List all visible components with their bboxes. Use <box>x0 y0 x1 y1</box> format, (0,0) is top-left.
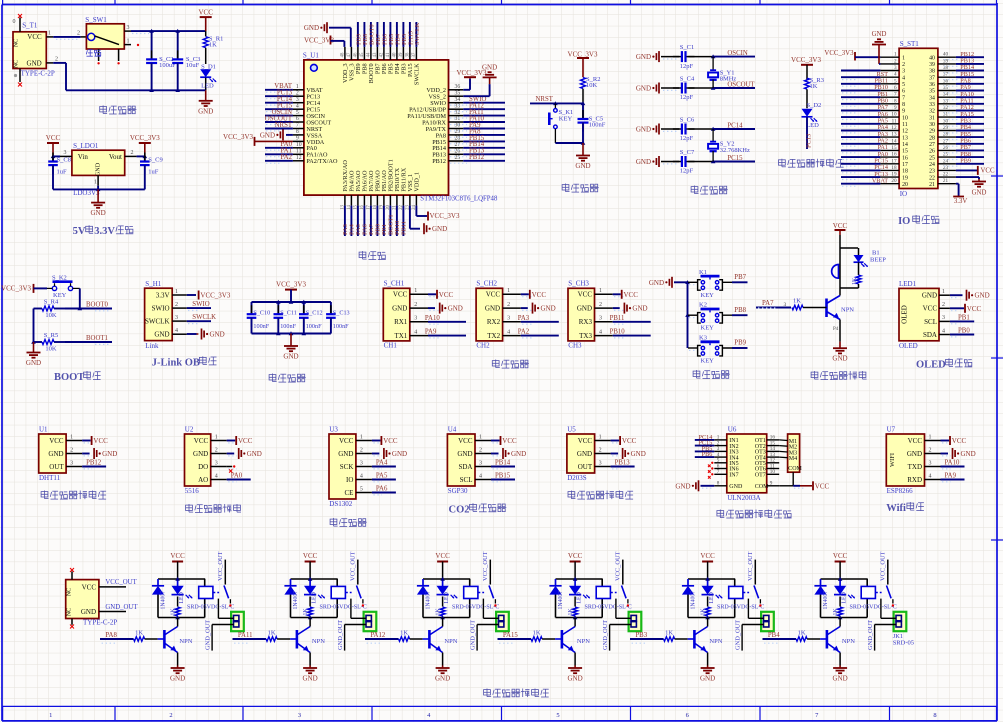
node GND_OUT relay PA12 <box>470 620 499 651</box>
svg-text:8: 8 <box>894 98 897 104</box>
node VCC_OUT net connector <box>99 579 138 587</box>
node 晶振电路 title <box>691 186 728 195</box>
wire mcu left stubs <box>265 83 293 163</box>
svg-text:S_C10: S_C10 <box>253 310 270 317</box>
svg-text:PA10: PA10 <box>425 315 440 322</box>
svg-text:VCC: VCC <box>815 482 830 490</box>
svg-text:S_C13: S_C13 <box>333 310 350 317</box>
ground U7 <box>941 448 976 459</box>
svg-text:PB12: PB12 <box>469 154 485 161</box>
wire relay frame PB3 <box>688 577 735 619</box>
pin ULN IN5-IN7 open <box>708 462 714 479</box>
svg-text:BOOT1: BOOT1 <box>86 335 108 342</box>
svg-text:8MHz: 8MHz <box>720 76 737 83</box>
power VCC U2 <box>227 436 253 445</box>
node PB15 net U4 <box>491 473 515 480</box>
svg-text:5: 5 <box>894 78 897 84</box>
svg-text:PC13: PC13 <box>806 134 813 148</box>
svg-text:GND: GND <box>832 355 847 363</box>
svg-text:GND: GND <box>833 675 848 683</box>
ground mcu top VSS_3 <box>304 22 351 47</box>
svg-text:VCC: VCC <box>198 8 213 16</box>
svg-text:LED: LED <box>312 592 318 603</box>
svg-text:40: 40 <box>393 52 398 57</box>
svg-text:DS1302: DS1302 <box>329 500 352 508</box>
svg-text:VCC: VCC <box>383 437 398 445</box>
svg-text:GND: GND <box>193 450 208 458</box>
svg-text:S_T1: S_T1 <box>22 21 38 29</box>
switch S_SW1 <box>85 16 139 65</box>
svg-text:VCC_OUT: VCC_OUT <box>105 579 137 586</box>
svg-text:PB12: PB12 <box>86 460 102 467</box>
svg-text:4: 4 <box>507 329 510 335</box>
relay switch PA12 <box>489 586 497 607</box>
LED relay PA11 <box>304 586 325 604</box>
svg-text:PB3: PB3 <box>635 632 647 639</box>
svg-text:SWIO: SWIO <box>152 305 170 313</box>
svg-text:GND: GND <box>247 450 262 458</box>
svg-text:2: 2 <box>414 302 417 308</box>
svg-text:GND: GND <box>577 304 592 312</box>
svg-text:RX1: RX1 <box>394 318 408 326</box>
svg-text:GND: GND <box>27 59 42 67</box>
svg-text:J-Link OB: J-Link OB <box>152 357 200 368</box>
wire relay frame PB4 <box>821 577 868 619</box>
svg-text:OUT: OUT <box>578 463 593 471</box>
svg-text:9: 9 <box>902 109 905 115</box>
svg-text:44: 44 <box>367 52 372 57</box>
header S_H1 J-Link <box>145 280 187 350</box>
svg-text:S_U1: S_U1 <box>303 52 319 60</box>
relay switch PB3 <box>754 586 762 607</box>
wire header right nets <box>944 51 984 166</box>
svg-text:3: 3 <box>175 315 178 321</box>
svg-text:GND: GND <box>577 450 592 458</box>
svg-text:PA10: PA10 <box>945 460 960 467</box>
svg-text:10K: 10K <box>45 312 57 319</box>
svg-text:18: 18 <box>891 165 897 171</box>
svg-text:Link: Link <box>145 342 159 350</box>
header S_ST1 body <box>899 40 938 198</box>
svg-text:ESP8266: ESP8266 <box>887 487 914 495</box>
svg-text:VCC_3V3: VCC_3V3 <box>276 280 306 288</box>
node GND_OUT net connector <box>99 604 138 612</box>
svg-text:K1: K1 <box>699 269 707 276</box>
svg-text:3: 3 <box>929 460 932 466</box>
svg-text:6: 6 <box>894 85 897 91</box>
svg-text:0: 0 <box>13 19 16 25</box>
svg-text:GND: GND <box>95 162 102 176</box>
svg-text:45: 45 <box>360 52 365 57</box>
svg-text:25: 25 <box>455 155 461 161</box>
node DHT11 module title <box>41 491 106 500</box>
node PA9 net U7 <box>941 473 965 480</box>
svg-text:P4: P4 <box>833 327 839 332</box>
node GND_OUT relay PA11 <box>337 620 366 651</box>
ground relay PB3 <box>700 653 715 683</box>
svg-text:D203S: D203S <box>567 474 587 482</box>
svg-text:15: 15 <box>902 149 908 155</box>
svg-text:SRD-05VDC-SL-C: SRD-05VDC-SL-C <box>585 605 632 611</box>
wire ldo bottom rail <box>53 186 145 198</box>
svg-text:4: 4 <box>479 473 482 479</box>
svg-text:IO: IO <box>346 476 353 484</box>
node VCC_OUT relay PA11 <box>350 551 358 584</box>
svg-text:VCC: VCC <box>339 437 354 445</box>
node PA4 net U3 <box>372 460 396 467</box>
wire relay NO to connector PA15 <box>616 599 631 619</box>
svg-text:GND: GND <box>435 675 450 683</box>
node 主芯片 title <box>359 251 386 260</box>
svg-text:2: 2 <box>929 447 932 453</box>
svg-text:S_D2: S_D2 <box>807 102 822 109</box>
ground U5 <box>611 448 646 459</box>
svg-text:TX1: TX1 <box>394 332 407 340</box>
resistor 1K relay base PB4 <box>796 630 827 642</box>
resistor 1K relay base PA15 <box>531 630 562 642</box>
node PB8 net key <box>689 307 748 318</box>
node 开关 label <box>86 50 101 57</box>
svg-text:LED: LED <box>179 592 185 603</box>
svg-text:BOOT0: BOOT0 <box>86 301 109 308</box>
svg-text:SCL: SCL <box>460 476 473 484</box>
ground reset <box>575 143 590 170</box>
svg-text:S_C9: S_C9 <box>148 157 162 164</box>
svg-text:S_C8: S_C8 <box>57 157 71 164</box>
svg-text:1: 1 <box>94 180 97 186</box>
node 程序运行指示灯 title <box>779 159 844 168</box>
svg-text:PB11: PB11 <box>401 221 408 235</box>
svg-text:NPN: NPN <box>841 307 854 314</box>
svg-text:2: 2 <box>599 302 602 308</box>
node 四相五线步进电机 title <box>717 510 792 519</box>
connector M1-M4 stepper <box>779 434 802 472</box>
power VCC_3V3 mcu VDD_2 <box>457 69 487 90</box>
svg-text:PB15: PB15 <box>495 473 511 480</box>
LED relay PA15 <box>569 586 590 604</box>
crystal S_Y1 8MHz <box>708 57 736 88</box>
wire relay frame PA15 <box>556 577 603 619</box>
svg-text:Wifi: Wifi <box>886 503 906 514</box>
power VCC <box>198 8 213 31</box>
svg-text:LED: LED <box>842 592 848 603</box>
mcu U1 bottom pins <box>341 159 421 210</box>
svg-text:1K: 1K <box>798 630 806 637</box>
capacitor S_C6 12pF + node PC14 <box>636 116 755 142</box>
svg-text:GND: GND <box>729 484 743 490</box>
svg-text:VCC_3V3: VCC_3V3 <box>430 212 460 220</box>
svg-text:19: 19 <box>902 175 908 181</box>
ground U3 <box>372 448 407 459</box>
wire filter bottom rail <box>252 331 331 335</box>
svg-text:GND: GND <box>972 190 987 197</box>
ground jlink <box>187 329 225 340</box>
relay switch PA8 <box>224 586 232 607</box>
svg-text:SRD-05: SRD-05 <box>893 640 914 647</box>
ground alarm <box>832 342 847 363</box>
svg-text:9: 9 <box>894 105 897 111</box>
svg-text:20: 20 <box>891 178 897 184</box>
power VCC relay PB3 <box>700 552 715 579</box>
node 声光报警电路 title <box>811 371 867 380</box>
LED S_D1 <box>200 63 216 90</box>
svg-text:25: 25 <box>943 152 949 158</box>
capacitor S_C8 1uF <box>48 153 71 190</box>
svg-text:1: 1 <box>414 288 417 294</box>
svg-text:Vin: Vin <box>78 153 89 161</box>
svg-text:3: 3 <box>902 69 905 75</box>
node PA2 net S_CH2 <box>518 329 559 336</box>
svg-text:VCC: VCC <box>578 291 593 299</box>
svg-text:GND: GND <box>81 608 96 616</box>
wire VCC to switch <box>53 31 86 40</box>
ground S_CH2 <box>521 303 556 314</box>
svg-text:28: 28 <box>929 135 935 141</box>
wire reset bottom <box>555 141 585 145</box>
svg-text:SGP30: SGP30 <box>448 487 468 495</box>
svg-text:38: 38 <box>943 65 949 71</box>
svg-text:2: 2 <box>55 57 58 63</box>
svg-text:LED: LED <box>709 592 715 603</box>
LED relay PB3 <box>702 586 723 604</box>
svg-text:S_SW1: S_SW1 <box>85 16 107 24</box>
svg-text:NRST: NRST <box>536 96 554 103</box>
svg-text:S_CH1: S_CH1 <box>384 280 405 288</box>
svg-text:11: 11 <box>892 118 897 124</box>
svg-text:PA2/TX/AO: PA2/TX/AO <box>306 158 338 165</box>
svg-text:27: 27 <box>943 138 949 144</box>
svg-text:PC14: PC14 <box>727 123 743 130</box>
mcu U1 top pins <box>341 47 421 85</box>
svg-text:42: 42 <box>380 52 385 57</box>
svg-text:4: 4 <box>414 329 417 335</box>
svg-text:2: 2 <box>175 302 178 308</box>
resistor 1K relay led PA12 <box>435 607 445 616</box>
svg-text:VCC: VCC <box>568 552 583 560</box>
header S_ST1 right pins <box>929 52 956 188</box>
svg-text:GND: GND <box>482 63 497 71</box>
svg-text:31: 31 <box>943 112 949 118</box>
svg-text:OUT: OUT <box>49 463 64 471</box>
svg-text:36: 36 <box>929 82 935 88</box>
ground relay PA12 <box>435 653 450 683</box>
svg-text:SDA: SDA <box>458 463 472 471</box>
svg-text:7: 7 <box>894 92 897 98</box>
svg-text:GND_OUT: GND_OUT <box>470 620 477 650</box>
svg-text:1K: 1K <box>833 608 839 616</box>
svg-text:27: 27 <box>455 142 461 148</box>
node 电源电路 title <box>100 105 137 114</box>
svg-text:PB6: PB6 <box>702 451 713 458</box>
ground ULN <box>675 480 714 491</box>
node J-Link OB接口 title <box>152 356 217 368</box>
connector output relay PA15 <box>629 612 642 631</box>
module U1 DHT11 <box>39 426 92 482</box>
power VCC relay PA11 <box>303 552 318 579</box>
ground keys <box>649 277 688 288</box>
node 串口电路 title <box>492 360 529 369</box>
svg-text:30: 30 <box>929 122 935 128</box>
svg-text:PB0: PB0 <box>958 328 970 335</box>
svg-text:11: 11 <box>296 149 302 155</box>
svg-text:PA8: PA8 <box>105 632 117 639</box>
svg-text:100nF: 100nF <box>306 323 322 330</box>
capacitor S_C11 100nF <box>274 302 297 334</box>
svg-text:GND: GND <box>170 675 185 683</box>
svg-text:2: 2 <box>296 91 299 97</box>
svg-text:4: 4 <box>929 473 932 479</box>
svg-text:19: 19 <box>891 172 897 178</box>
svg-text:NC: NC <box>14 39 20 47</box>
svg-text:2: 2 <box>131 150 134 156</box>
svg-text:2: 2 <box>507 302 510 308</box>
resistor 1K relay led PB3 <box>700 607 710 616</box>
button K3 KEY <box>688 335 747 365</box>
svg-text:KEY: KEY <box>701 292 715 299</box>
power VCC header pin23 <box>956 166 995 175</box>
svg-text:29: 29 <box>943 125 949 131</box>
header S_CH3 serial <box>568 280 624 350</box>
svg-text:VCC: VCC <box>49 437 64 445</box>
svg-text:12pF: 12pF <box>680 94 694 101</box>
svg-text:41: 41 <box>386 52 391 57</box>
svg-text:BOOT: BOOT <box>54 372 84 383</box>
wire filter top rail <box>252 300 331 304</box>
svg-text:5: 5 <box>556 712 559 719</box>
power VCC_3V3 header pin1 <box>824 50 880 61</box>
svg-text:21: 21 <box>943 178 949 184</box>
resistor 1K relay base PA8 <box>134 630 165 642</box>
power VCC ldo <box>46 134 61 158</box>
svg-text:RXD: RXD <box>907 476 922 484</box>
resistor 1K relay led PB4 <box>833 607 843 616</box>
svg-text:1: 1 <box>942 289 945 295</box>
svg-text:PB10: PB10 <box>610 329 626 336</box>
svg-text:3: 3 <box>296 97 299 103</box>
svg-text:17: 17 <box>902 162 908 168</box>
svg-text:20: 20 <box>902 182 908 188</box>
ground power circuit <box>198 90 213 115</box>
svg-text:GND: GND <box>432 225 447 233</box>
svg-text:GND: GND <box>210 331 225 339</box>
button S_K1 KEY <box>549 103 573 143</box>
svg-text:47: 47 <box>347 52 352 57</box>
svg-text:5: 5 <box>360 486 363 492</box>
node VCC_OUT relay PA8 <box>217 551 225 584</box>
svg-text:PA9: PA9 <box>945 473 957 480</box>
transistor NPN relay PA11 <box>297 618 325 653</box>
diode 1N4007 relay PB4 <box>814 586 829 610</box>
svg-text:CH1: CH1 <box>384 342 398 350</box>
svg-text:12: 12 <box>902 129 908 135</box>
svg-text:25: 25 <box>929 155 935 161</box>
power VCC_3V3 filter <box>276 280 306 302</box>
power VCC_3V3 runled <box>791 56 821 80</box>
svg-text:VCC: VCC <box>967 305 982 313</box>
svg-text:12: 12 <box>891 125 897 131</box>
svg-text:OLED: OLED <box>899 342 918 350</box>
svg-text:4: 4 <box>902 75 905 81</box>
svg-text:IN7: IN7 <box>729 473 738 479</box>
node 复位电路 title <box>562 184 599 193</box>
svg-text:PB7: PB7 <box>734 274 746 281</box>
capacitor S_C3 10uF <box>172 31 200 90</box>
wire header left nets <box>841 71 888 186</box>
svg-text:VDD_1: VDD_1 <box>414 172 421 192</box>
svg-text:VCC: VCC <box>981 168 995 175</box>
svg-text:2: 2 <box>902 62 905 68</box>
ground mcu VSS_2 <box>463 63 497 96</box>
svg-text:3: 3 <box>894 65 897 71</box>
node PB9 net key <box>689 340 748 351</box>
svg-text:TYPE-C-2P: TYPE-C-2P <box>83 619 117 627</box>
svg-text:NPN: NPN <box>179 638 192 645</box>
svg-text:VBAT: VBAT <box>872 177 888 184</box>
node PB4 input relay PB4 <box>763 632 797 643</box>
svg-text:PA3: PA3 <box>518 315 530 322</box>
svg-text:VCC_3V3: VCC_3V3 <box>130 134 160 142</box>
capacitor S_C13 100nF <box>326 302 350 334</box>
node D203S module title <box>568 491 633 500</box>
wire ULN input nets <box>695 434 715 458</box>
svg-text:28: 28 <box>455 136 461 142</box>
wire relay NO to connector PB4 <box>881 599 896 619</box>
svg-text:1: 1 <box>929 434 932 440</box>
svg-text:4: 4 <box>296 103 299 109</box>
transistor NPN relay PB4 <box>827 618 855 653</box>
svg-text:11: 11 <box>902 122 908 128</box>
svg-text:1: 1 <box>507 288 510 294</box>
svg-text:28: 28 <box>943 132 949 138</box>
svg-text:BEEP: BEEP <box>870 257 886 264</box>
svg-text:S_CH3: S_CH3 <box>568 280 589 288</box>
capacitor S_C5 100nF <box>578 103 606 143</box>
svg-text:2: 2 <box>360 447 363 453</box>
svg-text:Vout: Vout <box>109 153 122 161</box>
svg-text:OLED: OLED <box>916 359 946 370</box>
svg-text:GND_OUT: GND_OUT <box>105 604 138 611</box>
svg-text:3: 3 <box>360 460 363 466</box>
svg-text:PB4: PB4 <box>768 632 780 639</box>
capacitor S_C9 1uF <box>140 153 163 190</box>
svg-text:B1: B1 <box>872 250 880 257</box>
svg-text:26: 26 <box>455 149 461 155</box>
crystal S_Y2 32.768KHz <box>708 129 750 162</box>
svg-text:NPN: NPN <box>577 638 590 645</box>
button S_K2 KEY <box>47 274 80 299</box>
svg-text:PB12: PB12 <box>432 158 446 165</box>
node BOOT1 net <box>65 335 112 345</box>
svg-text:38: 38 <box>406 52 411 57</box>
resistor S_R5 10K <box>34 332 66 353</box>
svg-text:1: 1 <box>894 52 897 58</box>
svg-text:17: 17 <box>891 158 897 164</box>
svg-text:SWCLK: SWCLK <box>145 318 170 326</box>
svg-text:1N4007: 1N4007 <box>293 591 299 610</box>
svg-text:8: 8 <box>902 102 905 108</box>
svg-text:3: 3 <box>70 460 73 466</box>
svg-text:16: 16 <box>902 155 908 161</box>
resistor S_R4 10K <box>34 298 66 319</box>
ground U1 <box>82 448 117 459</box>
svg-text:GND: GND <box>649 279 664 287</box>
wire relay NO to connector PA11 <box>351 599 366 619</box>
node 按键电路 title <box>693 370 730 379</box>
svg-text:GND: GND <box>636 53 651 61</box>
svg-text:13: 13 <box>891 132 897 138</box>
svg-text:5V: 5V <box>73 226 86 237</box>
svg-text:VCC: VCC <box>439 291 454 299</box>
